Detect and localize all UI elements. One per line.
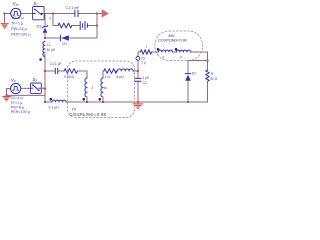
- svg-text:PW=8 µ: PW=8 µ: [11, 105, 25, 109]
- capacitor C2 1uF: [135, 78, 141, 81]
- node junction (45,38): [44, 37, 46, 39]
- node junction (87,102): [86, 101, 88, 103]
- svg-text:S1: S1: [33, 1, 38, 7]
- inductor 8uH: [117, 69, 133, 71]
- svg-text:C4 1 µF: C4 1 µF: [50, 62, 62, 66]
- phasing dot TX primary: [83, 98, 86, 101]
- source Vac: [11, 8, 21, 18]
- node A top-left junction: [3, 12, 5, 14]
- transformer TX primary winding: [86, 71, 88, 78]
- svg-text:D2: D2: [192, 72, 196, 76]
- svg-text:0.05 Ω: 0.05 Ω: [64, 75, 75, 79]
- svg-text:4: 4: [180, 56, 182, 60]
- svg-text:4u: 4u: [104, 86, 108, 90]
- ground 0 bottom-left: [3, 97, 10, 101]
- wire row mid-left: [45, 70, 87, 72]
- svg-text:C2: C2: [143, 81, 147, 85]
- phasing dot L3: [157, 48, 160, 51]
- svg-text:1 µF: 1 µF: [143, 76, 150, 80]
- wire vertical x138 upper: [137, 52, 139, 71]
- svg-text:2: 2: [50, 17, 52, 21]
- node junction (6.5,95.4): [5, 94, 7, 96]
- node junction (45,71): [44, 70, 46, 72]
- label source parameters top: [11, 16, 31, 37]
- wire row3 diode row: [45, 37, 97, 39]
- wire source Vin leads: [7, 88, 31, 95]
- svg-text:TF=1 µ: TF=1 µ: [10, 101, 23, 105]
- dashed box MU coupling: [155, 31, 203, 61]
- ground 0 mid: [133, 102, 143, 109]
- svg-text:2: 2: [92, 86, 94, 90]
- svg-text:50 Ω: 50 Ω: [210, 77, 217, 81]
- resistor R2: [140, 50, 151, 55]
- wire branch down from (53,13.5): [52, 14, 54, 26]
- source Vin: [11, 83, 21, 93]
- zener Dz: [44, 14, 46, 27]
- ground 0 top-left: [1, 24, 8, 28]
- switch S2 box: [31, 83, 42, 93]
- node junction (45,102): [44, 101, 46, 103]
- resistor Rs row2: [58, 23, 72, 28]
- node junction (103,102): [102, 101, 104, 103]
- inductor Lm vertical: [43, 42, 45, 57]
- node junction (45,88.5): [44, 87, 46, 89]
- svg-text:L1: L1: [47, 43, 51, 47]
- node junction (53,13.5): [52, 12, 54, 14]
- svg-text:C1 1 mF: C1 1 mF: [66, 6, 81, 10]
- off-page arrow connector: [102, 10, 108, 17]
- svg-text:PER=100 µ: PER=100 µ: [11, 110, 31, 114]
- svg-text:1 Ω: 1 Ω: [105, 75, 111, 79]
- node junction (97,13.5): [96, 12, 98, 14]
- svg-text:PER=100 µ: PER=100 µ: [11, 33, 31, 37]
- node junction (138,71): [137, 70, 139, 72]
- phasing dot TX secondary: [99, 98, 102, 101]
- svg-text:COUPLING=0.98: COUPLING=0.98: [70, 112, 107, 117]
- probe bubble: [136, 56, 140, 60]
- battery Vc: [80, 21, 87, 29]
- node junction (138,102): [137, 101, 139, 103]
- phasing dot L4: [175, 48, 178, 51]
- svg-text:1 µ: 1 µ: [141, 60, 146, 64]
- inductor 0.1uH: [52, 100, 66, 102]
- diode D2: [185, 73, 191, 75]
- svg-text:D1: D1: [63, 42, 68, 46]
- inductor L3: [158, 50, 172, 52]
- svg-text:TD=1 µ: TD=1 µ: [11, 16, 24, 20]
- node junction (188,102): [187, 101, 189, 103]
- svg-text:TF=1 µ: TF=1 µ: [11, 22, 24, 26]
- capacitor C4 1uF: [55, 68, 57, 73]
- wire ground stem top-left: [4, 14, 6, 24]
- wire vertical x138 lower / capacitor C2: [137, 71, 139, 102]
- capacitor C1 1mF: [75, 10, 78, 16]
- inductor L4: [176, 50, 190, 52]
- node junction (97,25.5): [96, 24, 98, 26]
- wire switch output stub: [41, 87, 45, 89]
- resistor 0.05 ohm: [64, 69, 77, 74]
- phasing dot 0.1uH: [50, 98, 53, 101]
- wire row mid-right: [103, 70, 138, 72]
- transformer TX secondary winding: [102, 71, 104, 78]
- svg-text:40 µH: 40 µH: [47, 48, 56, 52]
- svg-text:PW=24 µ: PW=24 µ: [11, 27, 28, 31]
- wire row2: [53, 25, 97, 27]
- svg-text:D3: D3: [37, 25, 42, 29]
- svg-text:COUPLING=0.99: COUPLING=0.99: [158, 39, 187, 43]
- diode D1: [60, 35, 62, 41]
- svg-text:3: 3: [162, 56, 164, 60]
- wire ground return row: [7, 94, 46, 96]
- resistor RL vertical: [207, 61, 209, 71]
- svg-text:Vac: Vac: [13, 1, 19, 7]
- wire y52 row to MU: [138, 52, 208, 61]
- wire right rail top circuit: [96, 14, 98, 39]
- svg-text:TD=1 µ: TD=1 µ: [10, 96, 23, 100]
- svg-text:S2: S2: [33, 77, 38, 83]
- wire bottom rail: [45, 101, 208, 103]
- svg-text:Vin: Vin: [11, 78, 16, 84]
- svg-text:R: R: [211, 72, 214, 76]
- dashed box TX coupling: [68, 61, 135, 118]
- phasing dot Lm: [39, 58, 42, 61]
- wire diode branch: [187, 61, 189, 103]
- node junction (207.5,60.5): [206, 59, 208, 61]
- wire row y60.5: [188, 60, 208, 62]
- switch S1 box: [33, 7, 45, 20]
- wire top main row: [5, 13, 103, 15]
- label source parameters bottom: [10, 96, 30, 114]
- svg-text:MU: MU: [169, 34, 175, 38]
- svg-text:8 µH: 8 µH: [117, 75, 125, 79]
- wire main left rail: [44, 55, 46, 103]
- svg-text:0.1 µH: 0.1 µH: [49, 106, 60, 110]
- svg-text:1: 1: [146, 44, 148, 48]
- resistor 1 ohm: [104, 69, 117, 74]
